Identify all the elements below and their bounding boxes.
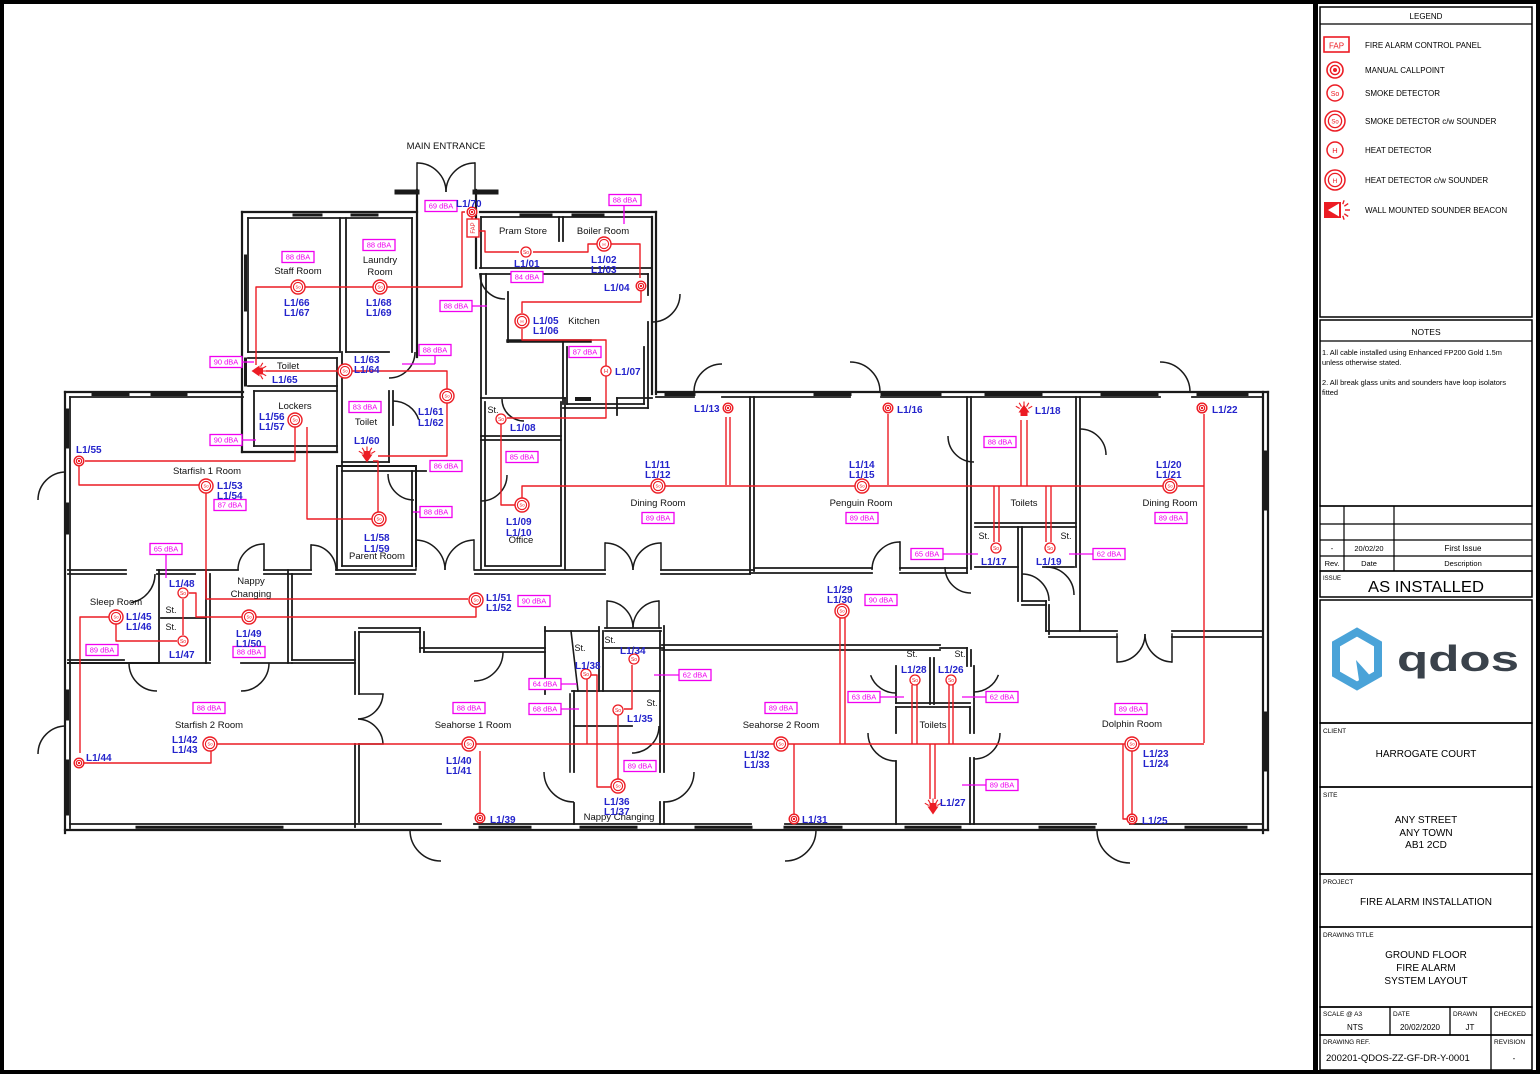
- svg-text:L1/47: L1/47: [169, 650, 195, 661]
- svg-text:Nappy: Nappy: [237, 576, 265, 587]
- svg-text:L1/08: L1/08: [510, 423, 536, 434]
- svg-text:69 dBA: 69 dBA: [429, 202, 454, 211]
- svg-text:FIRE ALARM: FIRE ALARM: [1396, 963, 1455, 974]
- svg-text:Changing: Changing: [231, 589, 272, 600]
- svg-text:68 dBA: 68 dBA: [533, 705, 558, 714]
- svg-text:H: H: [520, 319, 523, 324]
- svg-text:87 dBA: 87 dBA: [218, 501, 243, 510]
- svg-text:Staff Room: Staff Room: [274, 266, 321, 277]
- svg-text:St.: St.: [165, 605, 176, 615]
- svg-text:L1/59: L1/59: [364, 544, 390, 555]
- svg-text:85 dBA: 85 dBA: [510, 453, 535, 462]
- svg-text:L1/28: L1/28: [901, 665, 927, 676]
- svg-text:Room: Room: [367, 267, 392, 278]
- svg-text:FIRE ALARM INSTALLATION: FIRE ALARM INSTALLATION: [1360, 897, 1492, 908]
- svg-text:Sleep Room: Sleep Room: [90, 597, 142, 608]
- svg-text:First Issue: First Issue: [1445, 544, 1482, 553]
- svg-text:DATE: DATE: [1393, 1011, 1411, 1018]
- svg-text:MAIN ENTRANCE: MAIN ENTRANCE: [407, 141, 486, 152]
- svg-text:PROJECT: PROJECT: [1323, 879, 1353, 886]
- svg-text:L1/65: L1/65: [272, 375, 298, 386]
- svg-text:GROUND FLOOR: GROUND FLOOR: [1385, 950, 1467, 961]
- svg-text:L1/19: L1/19: [1036, 557, 1062, 568]
- svg-text:ANY STREET: ANY STREET: [1395, 815, 1458, 826]
- svg-text:WALL MOUNTED SOUNDER BEACON: WALL MOUNTED SOUNDER BEACON: [1365, 206, 1507, 215]
- svg-text:Dining Room: Dining Room: [631, 498, 686, 509]
- svg-text:89 dBA: 89 dBA: [90, 646, 115, 655]
- svg-text:Pram Store: Pram Store: [499, 226, 547, 237]
- svg-text:qdos: qdos: [1397, 638, 1519, 679]
- svg-text:ANY TOWN: ANY TOWN: [1399, 828, 1452, 839]
- svg-text:90 dBA: 90 dBA: [522, 597, 547, 606]
- svg-text:L1/41: L1/41: [446, 766, 472, 777]
- svg-text:88 dBA: 88 dBA: [988, 438, 1013, 447]
- svg-text:So: So: [498, 417, 504, 423]
- svg-text:89 dBA: 89 dBA: [850, 514, 875, 523]
- svg-text:DRAWING TITLE: DRAWING TITLE: [1323, 932, 1374, 939]
- svg-text:Starfish 2 Room: Starfish 2 Room: [175, 720, 243, 731]
- svg-text:L1/34: L1/34: [620, 646, 646, 657]
- svg-text:So: So: [444, 394, 450, 399]
- svg-text:DRAWING REF.: DRAWING REF.: [1323, 1039, 1370, 1046]
- svg-text:DRAWN: DRAWN: [1453, 1011, 1478, 1018]
- svg-text:So: So: [203, 484, 209, 489]
- svg-text:So: So: [993, 546, 999, 552]
- svg-text:L1/03: L1/03: [591, 265, 617, 276]
- svg-text:MANUAL CALLPOINT: MANUAL CALLPOINT: [1365, 66, 1445, 75]
- svg-text:L1/16: L1/16: [897, 405, 923, 416]
- svg-text:Starfish 1 Room: Starfish 1 Room: [173, 466, 241, 477]
- svg-text:84 dBA: 84 dBA: [515, 273, 540, 282]
- svg-text:So: So: [377, 285, 383, 290]
- svg-text:St.: St.: [574, 643, 585, 653]
- svg-text:Seahorse 1 Room: Seahorse 1 Room: [435, 720, 512, 731]
- svg-text:88 dBA: 88 dBA: [457, 704, 482, 713]
- svg-text:L1/62: L1/62: [418, 418, 444, 429]
- svg-text:Rev.: Rev.: [1325, 559, 1340, 568]
- svg-text:FAP: FAP: [1329, 42, 1344, 51]
- svg-text:Toilets: Toilets: [1011, 498, 1038, 509]
- svg-text:So: So: [615, 784, 621, 789]
- svg-text:62 dBA: 62 dBA: [683, 671, 708, 680]
- svg-text:L1/15: L1/15: [849, 470, 875, 481]
- svg-text:So: So: [180, 639, 186, 645]
- svg-text:So: So: [583, 672, 589, 678]
- svg-text:L1/04: L1/04: [604, 283, 630, 294]
- svg-text:HEAT DETECTOR c/w SOUNDER: HEAT DETECTOR c/w SOUNDER: [1365, 176, 1488, 185]
- svg-text:SCALE @ A3: SCALE @ A3: [1323, 1011, 1363, 1018]
- svg-text:So: So: [1331, 91, 1340, 98]
- svg-text:L1/12: L1/12: [645, 470, 671, 481]
- svg-text:L1/37: L1/37: [604, 807, 630, 818]
- svg-text:NTS: NTS: [1347, 1023, 1363, 1032]
- svg-text:So: So: [523, 250, 529, 256]
- svg-text:L1/09: L1/09: [506, 517, 532, 528]
- svg-text:St.: St.: [978, 531, 989, 541]
- svg-text:So: So: [1047, 546, 1053, 552]
- svg-text:fitted: fitted: [1322, 388, 1338, 397]
- svg-text:SMOKE DETECTOR: SMOKE DETECTOR: [1365, 89, 1440, 98]
- svg-text:90 dBA: 90 dBA: [869, 596, 894, 605]
- svg-text:L1/21: L1/21: [1156, 470, 1182, 481]
- svg-text:L1/17: L1/17: [981, 557, 1007, 568]
- svg-text:L1/44: L1/44: [86, 753, 112, 764]
- svg-text:L1/24: L1/24: [1143, 759, 1169, 770]
- svg-text:St.: St.: [1060, 531, 1071, 541]
- svg-text:ISSUE: ISSUE: [1323, 576, 1341, 582]
- svg-text:LEGEND: LEGEND: [1410, 12, 1443, 21]
- svg-text:L1/18: L1/18: [1035, 406, 1061, 417]
- svg-text:St.: St.: [906, 649, 917, 659]
- svg-text:200201-QDOS-ZZ-GF-DR-Y-0001: 200201-QDOS-ZZ-GF-DR-Y-0001: [1326, 1053, 1470, 1064]
- svg-text:Lockers: Lockers: [278, 401, 312, 412]
- svg-text:89 dBA: 89 dBA: [769, 704, 794, 713]
- svg-text:So: So: [1129, 742, 1135, 747]
- svg-text:Laundry: Laundry: [363, 255, 398, 266]
- svg-text:L1/35: L1/35: [627, 714, 653, 725]
- svg-text:63 dBA: 63 dBA: [852, 693, 877, 702]
- svg-text:62 dBA: 62 dBA: [1097, 550, 1122, 559]
- svg-text:Dining Room: Dining Room: [1143, 498, 1198, 509]
- svg-text:Date: Date: [1361, 559, 1377, 568]
- svg-text:So: So: [473, 598, 479, 603]
- svg-text:L1/25: L1/25: [1142, 816, 1168, 827]
- svg-text:So: So: [1331, 120, 1339, 126]
- svg-text:89 dBA: 89 dBA: [990, 781, 1015, 790]
- svg-text:So: So: [631, 657, 637, 663]
- svg-text:20/02/20: 20/02/20: [1354, 544, 1383, 553]
- svg-text:88 dBA: 88 dBA: [444, 302, 469, 311]
- svg-text:SITE: SITE: [1323, 792, 1338, 799]
- svg-text:89 dBA: 89 dBA: [646, 514, 671, 523]
- svg-text:89 dBA: 89 dBA: [1119, 705, 1144, 714]
- svg-text:L1/06: L1/06: [533, 326, 559, 337]
- svg-text:L1/55: L1/55: [76, 445, 102, 456]
- svg-text:88 dBA: 88 dBA: [197, 704, 222, 713]
- svg-text:-: -: [1513, 1054, 1516, 1063]
- svg-text:So: So: [292, 418, 298, 423]
- svg-text:L1/57: L1/57: [259, 422, 285, 433]
- svg-text:So: So: [839, 609, 845, 614]
- svg-text:L1/58: L1/58: [364, 533, 390, 544]
- svg-text:HEAT DETECTOR: HEAT DETECTOR: [1365, 146, 1432, 155]
- svg-text:87 dBA: 87 dBA: [573, 348, 598, 357]
- svg-text:SYSTEM LAYOUT: SYSTEM LAYOUT: [1384, 976, 1467, 987]
- svg-text:H: H: [604, 369, 608, 375]
- svg-text:L1/26: L1/26: [938, 665, 964, 676]
- svg-text:So: So: [948, 678, 954, 684]
- svg-text:St.: St.: [646, 698, 657, 708]
- svg-text:1. All cable installed using: 1. All cable installed using Enhanced FP…: [1322, 348, 1502, 357]
- svg-text:So: So: [466, 742, 472, 747]
- svg-text:L1/48: L1/48: [169, 579, 195, 590]
- svg-text:L1/52: L1/52: [486, 603, 512, 614]
- svg-text:L1/07: L1/07: [615, 367, 641, 378]
- svg-text:So: So: [912, 678, 918, 684]
- svg-text:St.: St.: [954, 649, 965, 659]
- svg-text:SMOKE DETECTOR c/w SOUNDER: SMOKE DETECTOR c/w SOUNDER: [1365, 117, 1497, 126]
- svg-text:88 dBA: 88 dBA: [423, 346, 448, 355]
- svg-text:L1/39: L1/39: [490, 815, 516, 826]
- svg-text:62 dBA: 62 dBA: [990, 693, 1015, 702]
- svg-text:L1/31: L1/31: [802, 815, 828, 826]
- svg-text:So: So: [615, 708, 621, 714]
- svg-text:So: So: [1167, 484, 1173, 489]
- svg-text:L1/13: L1/13: [694, 404, 720, 415]
- svg-text:JT: JT: [1466, 1023, 1475, 1032]
- svg-text:L1/01: L1/01: [514, 259, 540, 270]
- svg-text:L1/30: L1/30: [827, 595, 853, 606]
- svg-text:FAP: FAP: [471, 222, 477, 233]
- svg-text:St.: St.: [487, 405, 498, 415]
- svg-text:L1/33: L1/33: [744, 760, 770, 771]
- svg-text:So: So: [519, 503, 525, 508]
- svg-text:So: So: [859, 484, 865, 489]
- svg-text:FIRE ALARM CONTROL PANEL: FIRE ALARM CONTROL PANEL: [1365, 41, 1482, 50]
- svg-text:L1/67: L1/67: [284, 308, 310, 319]
- svg-text:So: So: [655, 484, 661, 489]
- svg-text:unless otherwise stated.: unless otherwise stated.: [1322, 358, 1401, 367]
- svg-text:St.: St.: [604, 635, 615, 645]
- svg-text:L1/60: L1/60: [354, 436, 380, 447]
- svg-text:64 dBA: 64 dBA: [533, 680, 558, 689]
- svg-text:88 dBA: 88 dBA: [367, 241, 392, 250]
- svg-text:L1/70: L1/70: [456, 199, 482, 210]
- svg-text:90 dBA: 90 dBA: [214, 436, 239, 445]
- svg-text:L1/27: L1/27: [940, 798, 966, 809]
- svg-text:89 dBA: 89 dBA: [628, 762, 653, 771]
- svg-text:Penguin Room: Penguin Room: [830, 498, 893, 509]
- svg-text:AB1 2CD: AB1 2CD: [1405, 840, 1447, 851]
- svg-text:Toilets: Toilets: [920, 720, 947, 731]
- svg-text:H: H: [1332, 146, 1337, 155]
- svg-text:20/02/2020: 20/02/2020: [1400, 1023, 1441, 1032]
- svg-text:L1/50: L1/50: [236, 639, 262, 650]
- svg-text:2. All break glass units and s: 2. All break glass units and sounders ha…: [1322, 378, 1506, 387]
- svg-text:REVISION: REVISION: [1494, 1039, 1525, 1046]
- svg-text:So: So: [342, 369, 348, 374]
- svg-text:CLIENT: CLIENT: [1323, 728, 1346, 735]
- svg-text:L1/43: L1/43: [172, 745, 198, 756]
- svg-text:L1/10: L1/10: [506, 528, 532, 539]
- svg-text:NOTES: NOTES: [1411, 327, 1441, 337]
- svg-text:65 dBA: 65 dBA: [154, 545, 179, 554]
- svg-text:89 dBA: 89 dBA: [1159, 514, 1184, 523]
- svg-text:88 dBA: 88 dBA: [613, 196, 638, 205]
- svg-text:Description: Description: [1444, 559, 1482, 568]
- svg-text:AS INSTALLED: AS INSTALLED: [1368, 579, 1484, 596]
- svg-text:88 dBA: 88 dBA: [424, 508, 449, 517]
- svg-text:65 dBA: 65 dBA: [915, 550, 940, 559]
- svg-text:L1/69: L1/69: [366, 308, 392, 319]
- svg-text:L1/46: L1/46: [126, 622, 152, 633]
- svg-text:So: So: [778, 742, 784, 747]
- svg-text:St.: St.: [165, 622, 176, 632]
- svg-text:90 dBA: 90 dBA: [214, 358, 239, 367]
- svg-text:Toilet: Toilet: [355, 417, 378, 428]
- svg-text:Seahorse 2 Room: Seahorse 2 Room: [743, 720, 820, 731]
- svg-text:L1/64: L1/64: [354, 365, 380, 376]
- svg-text:H: H: [1333, 178, 1338, 185]
- svg-text:Kitchen: Kitchen: [568, 316, 600, 327]
- svg-text:Dolphin Room: Dolphin Room: [1102, 719, 1162, 730]
- svg-text:So: So: [376, 517, 382, 522]
- svg-text:So: So: [113, 615, 119, 620]
- svg-text:So: So: [207, 742, 213, 747]
- svg-text:H: H: [602, 242, 605, 247]
- svg-text:Boiler Room: Boiler Room: [577, 226, 629, 237]
- svg-text:So: So: [246, 615, 252, 620]
- svg-text:83 dBA: 83 dBA: [353, 403, 378, 412]
- svg-text:HARROGATE COURT: HARROGATE COURT: [1376, 749, 1477, 760]
- svg-text:L1/22: L1/22: [1212, 405, 1238, 416]
- svg-text:88 dBA: 88 dBA: [286, 253, 311, 262]
- svg-text:So: So: [180, 591, 186, 597]
- svg-text:So: So: [295, 285, 301, 290]
- svg-text:Toilet: Toilet: [277, 361, 300, 372]
- svg-text:L1/54: L1/54: [217, 491, 243, 502]
- svg-text:L1/61: L1/61: [418, 407, 444, 418]
- svg-text:L1/38: L1/38: [575, 661, 601, 672]
- svg-text:CHECKED: CHECKED: [1494, 1011, 1526, 1018]
- svg-text:86 dBA: 86 dBA: [434, 462, 459, 471]
